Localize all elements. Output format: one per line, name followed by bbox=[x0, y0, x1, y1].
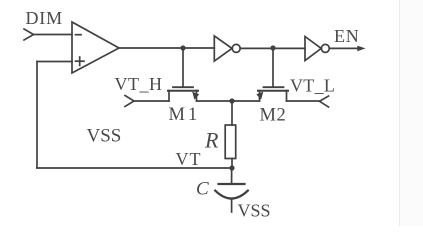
resistor R body bbox=[225, 125, 236, 159]
wire VT node to capacitor bbox=[231, 168, 233, 183]
node junction dot comparator output / M1 gate bbox=[180, 45, 185, 50]
op-amp U1 comparator triangle bbox=[72, 22, 119, 73]
transistor M2 arrow bbox=[256, 92, 263, 100]
svg-text:VT_L: VT_L bbox=[290, 76, 335, 96]
wire non-inverting input bbox=[37, 61, 72, 63]
svg-text:R: R bbox=[204, 128, 219, 153]
svg-text:C: C bbox=[196, 179, 209, 200]
svg-text:M2: M2 bbox=[260, 106, 287, 126]
wire M1 drain to middle node bbox=[197, 100, 233, 102]
scan edge faint line right bbox=[399, 0, 401, 226]
svg-text:EN: EN bbox=[334, 26, 360, 46]
transistor M2 gate plate bbox=[264, 86, 284, 88]
input port VT_L (chevron) bbox=[320, 96, 329, 107]
wire middle node to resistor bbox=[231, 101, 233, 125]
svg-text:VT_H: VT_H bbox=[115, 74, 163, 94]
wire comparator output to inverter1 bbox=[119, 47, 214, 49]
output arrowhead EN bbox=[357, 46, 365, 52]
input port VT_H (chevron) bbox=[125, 96, 134, 107]
inverter U3 output bubble bbox=[321, 44, 329, 52]
transistor M1 gate plate bbox=[173, 86, 193, 88]
node junction dot middle (M1/M2/R) bbox=[229, 98, 234, 103]
transistor M1 arrow bbox=[192, 92, 199, 100]
transistor M1 right drain lead bbox=[196, 91, 198, 102]
wire feedback bottom horizontal bbox=[37, 167, 232, 169]
wire EN output bbox=[329, 47, 358, 49]
wire M2 source to VT_L bbox=[287, 100, 320, 102]
minus sign on inverting input bbox=[76, 34, 82, 36]
wire inverter1 to inverter2 bbox=[240, 47, 305, 49]
wire VT_H to M1 source bbox=[134, 100, 169, 102]
node junction dot VT bbox=[229, 165, 234, 170]
node junction dot inverter1 output / M2 gate bbox=[270, 45, 275, 50]
capacitor C top plate bbox=[219, 183, 245, 185]
wire M2 drain to middle node bbox=[232, 100, 260, 102]
wire feedback vertical left bbox=[36, 62, 38, 169]
wire resistor to VT node bbox=[231, 159, 233, 169]
svg-text:M1: M1 bbox=[169, 105, 201, 125]
inverter U2 output bubble bbox=[232, 44, 240, 52]
inverter U3 triangle bbox=[305, 37, 321, 61]
transistor M1 left source lead bbox=[168, 91, 170, 102]
transistor M2 left drain lead bbox=[259, 91, 261, 102]
svg-text:VSS: VSS bbox=[87, 126, 122, 147]
plus sign on non-inverting input bbox=[76, 57, 85, 65]
svg-text:DIM: DIM bbox=[26, 8, 63, 28]
wire M2 gate lead vertical bbox=[272, 48, 274, 87]
svg-text:VT: VT bbox=[176, 149, 202, 169]
transistor M2 channel bar bbox=[258, 90, 288, 92]
capacitor C curved bottom plate bbox=[215, 191, 248, 199]
wire capacitor to VSS bbox=[231, 199, 233, 212]
transistor M2 right source lead bbox=[286, 91, 288, 102]
transistor M1 channel bar bbox=[168, 90, 198, 92]
wire DIM to comparator inverting input bbox=[34, 34, 73, 36]
input port DIM (chevron) bbox=[24, 29, 34, 40]
inverter U2 triangle bbox=[214, 36, 232, 61]
wire M1 gate lead vertical bbox=[182, 48, 184, 87]
svg-text:VSS: VSS bbox=[238, 201, 271, 221]
